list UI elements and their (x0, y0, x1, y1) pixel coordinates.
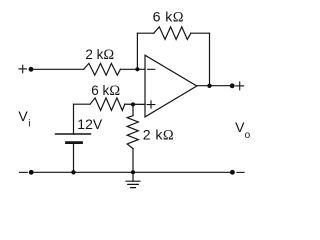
terminal minus bottom-left (20, 171, 28, 173)
svg-text:6 kΩ: 6 kΩ (153, 10, 184, 26)
node dot bottom-right terminal (230, 170, 235, 175)
op-amp plus marker (147, 101, 155, 108)
ground symbol (126, 181, 140, 187)
svg-text:12V: 12V (77, 116, 103, 132)
svg-text:o: o (245, 130, 251, 141)
resistor RF 6k zigzag (154, 27, 191, 40)
battery V1 short plate (67, 141, 82, 144)
wire feedback top-left (137, 32, 153, 34)
wire to 6k battery branch (74, 103, 91, 105)
resistor R3 2k vertical zigzag (127, 116, 138, 149)
svg-text:2 kΩ: 2 kΩ (85, 47, 114, 63)
wire bottom rail (31, 171, 232, 173)
wire battery bottom lead (73, 143, 75, 173)
node dot non-inverting junction (131, 102, 135, 106)
node dot bottom-left terminal (29, 170, 34, 175)
ground stub wire (132, 172, 134, 181)
svg-text:6 kΩ: 6 kΩ (91, 83, 120, 99)
node dot inverting junction (135, 67, 139, 71)
terminal minus bottom-right (237, 171, 244, 173)
wire battery top lead (73, 104, 75, 134)
wire output (197, 85, 232, 87)
node dot ground junction (131, 170, 135, 174)
wire R2 to non-inverting input (125, 103, 145, 105)
svg-text:V: V (18, 108, 28, 124)
node dot battery bottom junction (71, 170, 75, 174)
op-amp U1 triangle (145, 55, 197, 117)
wire resistor R3 bottom lead (132, 149, 134, 173)
terminal plus top-left (19, 65, 26, 72)
wire R1 to inverting input (120, 68, 145, 70)
node dot input terminal top (29, 67, 34, 72)
svg-text:2 kΩ: 2 kΩ (143, 128, 174, 144)
wire resistor R3 top lead (132, 104, 134, 115)
wire feedback left vertical (136, 33, 138, 69)
battery V1 long plate (56, 133, 91, 135)
wire feedback top-right (191, 32, 210, 34)
terminal plus right (236, 82, 244, 90)
svg-text:i: i (28, 119, 30, 130)
resistor R1 2k zigzag (84, 63, 121, 75)
svg-text:V: V (235, 119, 245, 135)
resistor R2 6k zigzag (90, 98, 125, 111)
op-amp minus marker (148, 68, 155, 70)
node dot output feedback junction (207, 84, 211, 88)
wire feedback right vertical (209, 33, 211, 85)
node dot output terminal (230, 83, 235, 88)
wire input left (31, 68, 84, 70)
